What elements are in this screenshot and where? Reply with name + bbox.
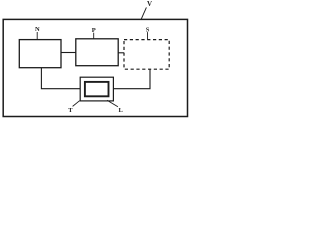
wire S down to T <box>113 69 150 89</box>
block S (dashed) <box>124 40 169 70</box>
leader line L <box>107 100 118 107</box>
leader tick S <box>147 32 149 40</box>
wire N down to T <box>41 68 80 89</box>
leader line V <box>141 7 146 19</box>
svg-text:T: T <box>68 107 73 114</box>
wire P to S <box>118 52 124 54</box>
wire N to P <box>61 52 76 54</box>
block T (outer box) <box>80 77 113 101</box>
leader tick N <box>36 32 38 40</box>
block N <box>19 40 61 68</box>
block P <box>76 39 118 66</box>
block L (inner box) <box>85 82 109 96</box>
leader tick P <box>93 33 95 39</box>
leader line T <box>73 101 80 107</box>
svg-text:V: V <box>147 0 152 8</box>
outer enclosure V (main rectangle) <box>3 19 187 116</box>
svg-text:L: L <box>119 107 124 114</box>
